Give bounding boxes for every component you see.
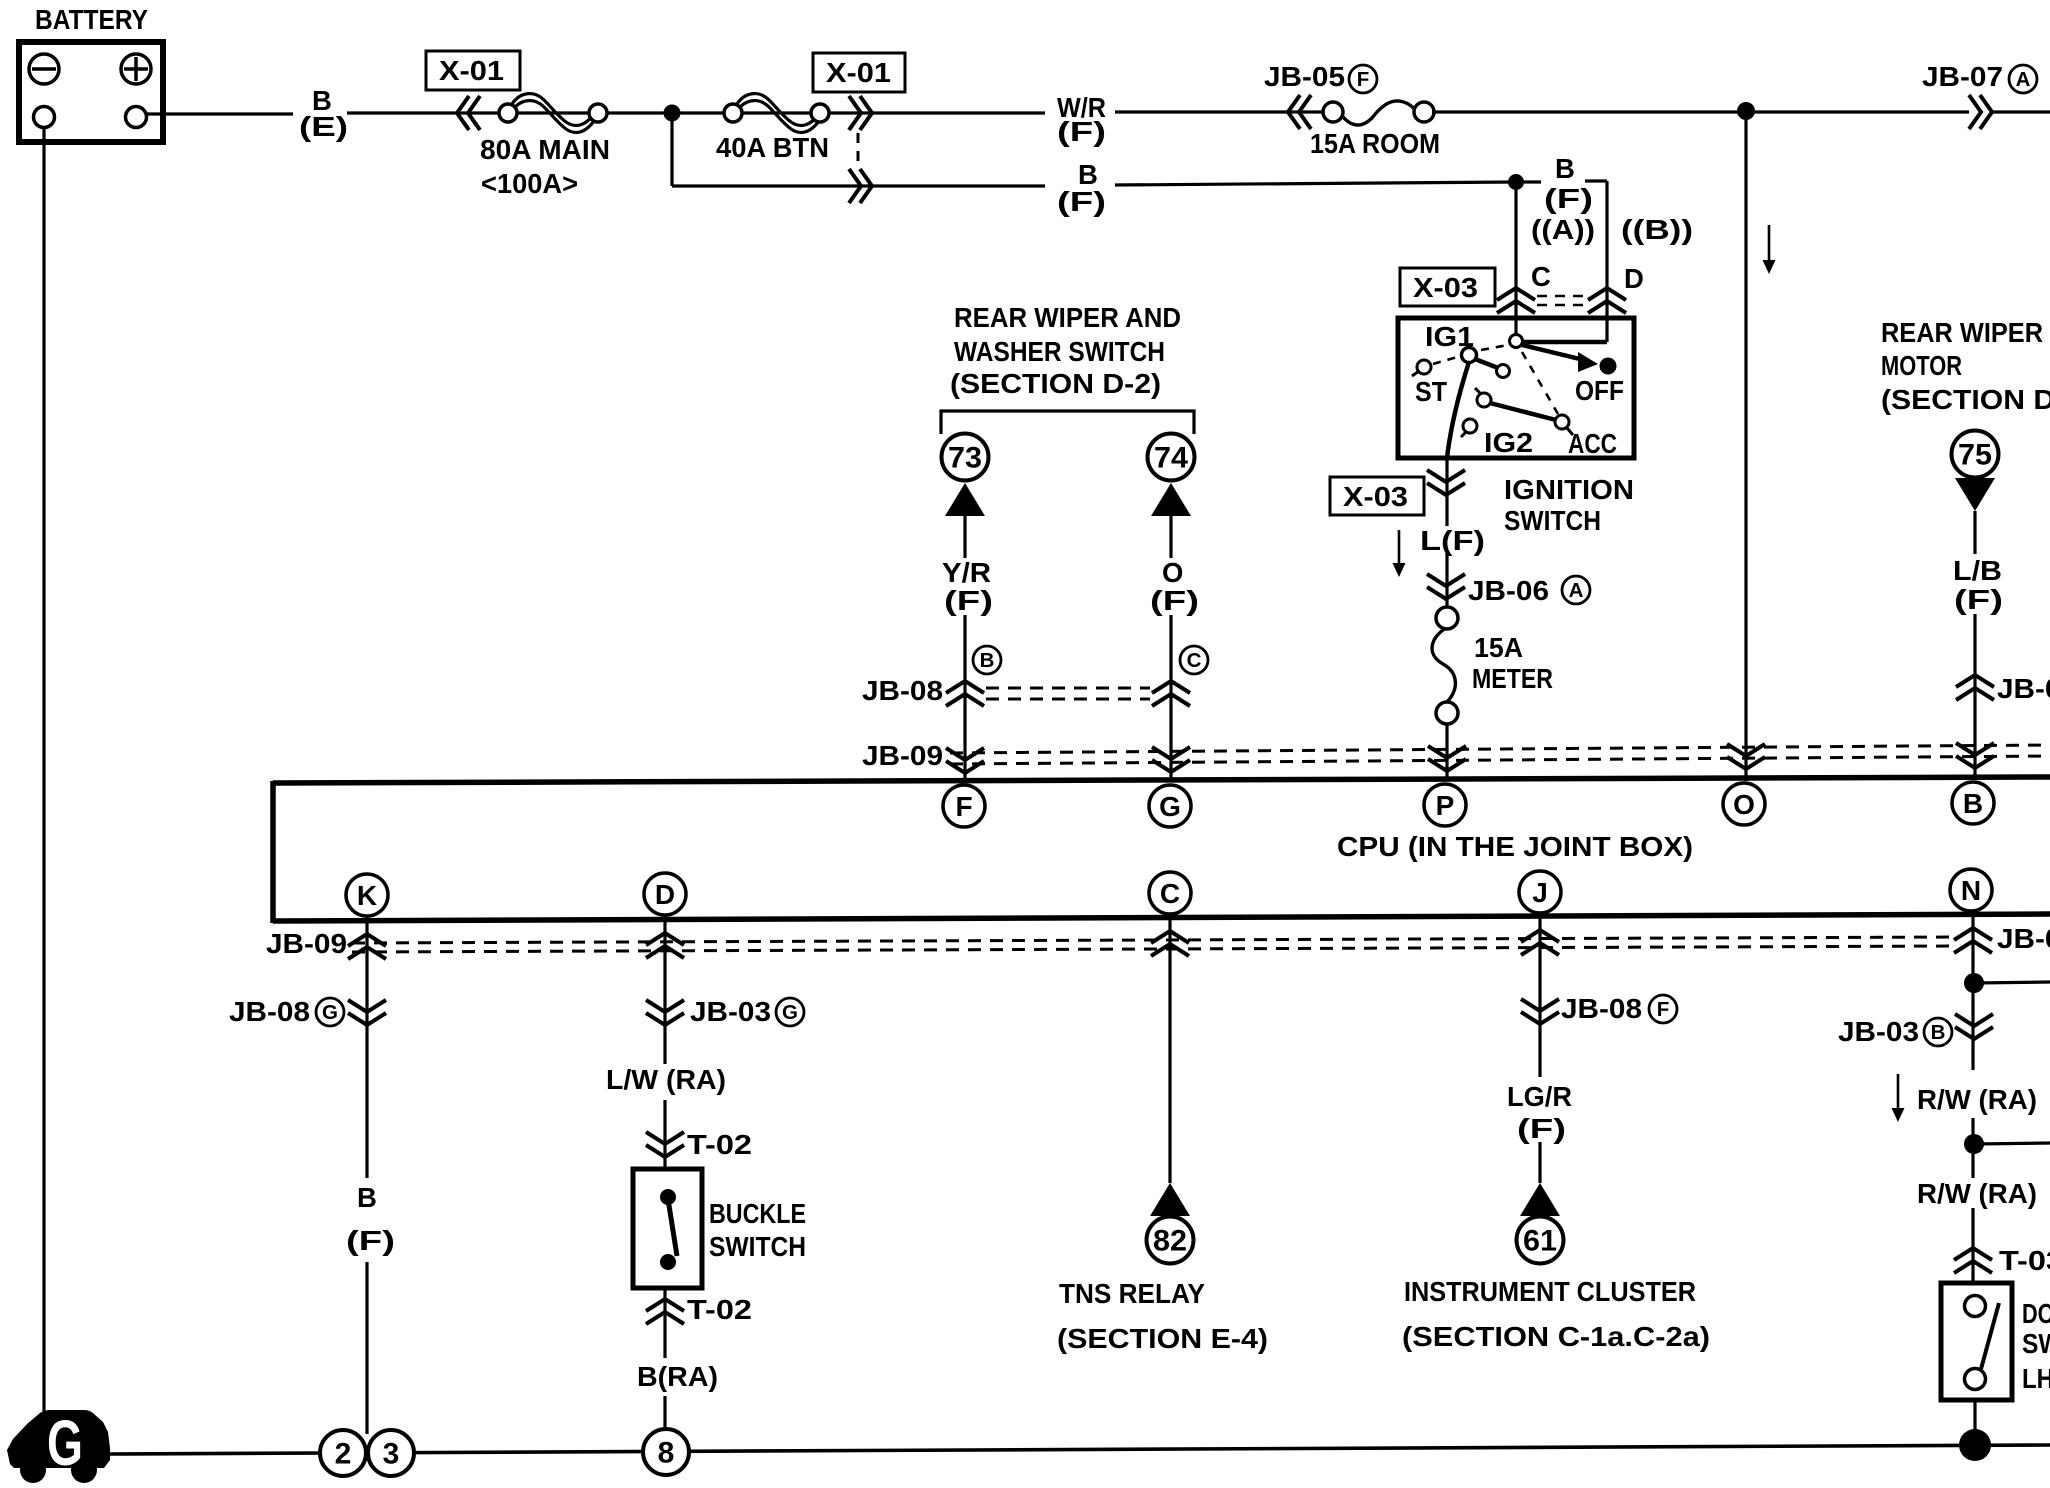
dashed IG1-C link bbox=[1481, 345, 1508, 350]
connector arrow 75 bbox=[1955, 478, 1995, 511]
wire buckle switch down bbox=[663, 1288, 666, 1358]
svg-text:<100A>: <100A> bbox=[481, 168, 578, 199]
svg-text:JB-08: JB-08 bbox=[1561, 993, 1642, 1024]
ground node 8 bbox=[643, 1429, 689, 1475]
JB-09 chevrons wire N bbox=[1954, 928, 1992, 953]
CPU pin N bbox=[1950, 869, 1992, 911]
wire METER fuse to CPU P bbox=[1445, 724, 1448, 781]
CPU pin P bbox=[1424, 784, 1466, 826]
connector chevrons JB-05 bbox=[1288, 95, 1311, 129]
svg-text:(E): (E) bbox=[299, 111, 348, 142]
wire 74 down bbox=[1169, 516, 1172, 558]
wire K to ground bus bbox=[365, 1262, 368, 1434]
wire battery+ to B(E) label bbox=[146, 112, 293, 115]
battery plus terminal symbol bbox=[121, 54, 151, 84]
svg-text:T-02: T-02 bbox=[687, 1129, 752, 1160]
svg-text:61: 61 bbox=[1523, 1225, 1557, 1258]
wire ignition output bbox=[1445, 458, 1448, 526]
80A fuse right terminal bbox=[589, 104, 607, 122]
battery minus terminal symbol bbox=[29, 54, 59, 84]
JB-09 chevrons wire G bbox=[1152, 747, 1190, 772]
svg-text:3: 3 bbox=[383, 1438, 400, 1471]
ignition terminal IG1 bbox=[1462, 348, 1477, 363]
svg-text:F: F bbox=[1657, 998, 1670, 1021]
wire W/R to 15A ROOM fuse bbox=[1115, 110, 1325, 113]
svg-text:G: G bbox=[782, 1001, 798, 1024]
svg-text:F: F bbox=[955, 791, 972, 822]
connector arrow 82 bbox=[1150, 1183, 1190, 1216]
wire tap 1 to page edge bbox=[1974, 982, 2050, 983]
connector chevrons X-01 on 80A link bbox=[457, 96, 480, 130]
svg-text:O: O bbox=[1733, 789, 1755, 820]
svg-text:JB-08: JB-08 bbox=[862, 675, 943, 706]
body ground symbol G (car) bbox=[7, 1407, 110, 1483]
wire B(E) through fuses to W/R label bbox=[347, 111, 1045, 114]
svg-text:CPU (IN THE JOINT BOX): CPU (IN THE JOINT BOX) bbox=[1337, 831, 1693, 862]
svg-text:T-02: T-02 bbox=[687, 1294, 752, 1325]
wire battery negative to body ground bbox=[42, 127, 45, 1412]
door switch blade bbox=[1981, 1303, 1999, 1369]
ignition center contact bbox=[1497, 365, 1510, 378]
svg-text:(F): (F) bbox=[1544, 183, 1593, 214]
svg-text:((A)): ((A)) bbox=[1531, 214, 1595, 245]
wire B(F) to ignition junction bbox=[1115, 182, 1516, 185]
connector chevrons T-03 bbox=[1954, 1248, 1992, 1273]
flow arrow L(F) bbox=[1393, 530, 1406, 577]
svg-text:K: K bbox=[357, 880, 377, 911]
JB-09 upper dashed bus bbox=[950, 745, 2050, 753]
wire junction down to B(F) branch bbox=[670, 113, 673, 186]
15A METER fuse top terminal bbox=[1436, 607, 1458, 629]
ACC contact tail bbox=[1567, 428, 1573, 435]
connector chevrons T-02 upper bbox=[646, 1132, 684, 1157]
svg-text:BATTERY: BATTERY bbox=[35, 4, 148, 35]
CPU pin J bbox=[1519, 871, 1561, 913]
ST contact tail bbox=[1412, 371, 1419, 376]
80A fuse left terminal bbox=[499, 104, 517, 122]
svg-text:L(F): L(F) bbox=[1420, 525, 1485, 556]
connector chevrons JB-07 bbox=[1969, 95, 1992, 129]
svg-text:(F): (F) bbox=[1057, 186, 1106, 217]
JB-09 chevrons wire C bbox=[1151, 931, 1189, 956]
IG2 contact tail bbox=[1475, 388, 1481, 394]
battery negative post bbox=[34, 107, 55, 128]
JB-09 chevrons wire O bbox=[1727, 744, 1765, 769]
CPU pin C bbox=[1149, 872, 1191, 914]
CPU pin O bbox=[1723, 783, 1765, 825]
svg-text:2: 2 bbox=[335, 1438, 352, 1471]
connector chevrons T-02 lower bbox=[646, 1299, 684, 1324]
JB-09 chevrons wire K bbox=[348, 934, 386, 959]
buckle switch box bbox=[633, 1169, 702, 1288]
wire C drop vertical bbox=[1514, 190, 1517, 335]
fusible link 80A MAIN bbox=[512, 94, 594, 126]
connector chevrons X-01 W/R side bbox=[849, 96, 872, 130]
connector chevrons JB-06 bbox=[1427, 574, 1465, 599]
wire K down bbox=[365, 916, 368, 1178]
svg-text:TNS RELAY: TNS RELAY bbox=[1059, 1278, 1205, 1309]
svg-text:82: 82 bbox=[1153, 1225, 1187, 1258]
wire B(RA) to ground bus bbox=[663, 1396, 666, 1431]
svg-text:Y/R: Y/R bbox=[942, 557, 991, 588]
ignition terminal IG2 bbox=[1477, 393, 1491, 407]
svg-text:R/W (RA): R/W (RA) bbox=[1917, 1084, 2037, 1115]
svg-text:D: D bbox=[655, 879, 675, 910]
svg-text:JB-07: JB-07 bbox=[1922, 61, 2003, 92]
svg-text:A: A bbox=[2016, 68, 2031, 91]
svg-text:(SECTION C-1a.C-2a): (SECTION C-1a.C-2a) bbox=[1402, 1321, 1710, 1352]
svg-text:(SECTION D-2): (SECTION D-2) bbox=[950, 368, 1161, 399]
lower contact tail bbox=[1461, 432, 1466, 437]
svg-text:REAR WIPER: REAR WIPER bbox=[1881, 317, 2043, 348]
wire 73 down bbox=[963, 516, 966, 558]
svg-text:(F): (F) bbox=[346, 1225, 395, 1256]
JB-09 chevrons wire P bbox=[1428, 746, 1466, 771]
connector 82 bbox=[1147, 1217, 1194, 1264]
15A ROOM fuse right terminal bbox=[1414, 102, 1434, 122]
svg-text:74: 74 bbox=[1154, 442, 1188, 475]
svg-text:(F): (F) bbox=[1150, 585, 1199, 616]
svg-text:P: P bbox=[1436, 790, 1455, 821]
connector 61 bbox=[1517, 1217, 1564, 1264]
svg-text:(F): (F) bbox=[1517, 1113, 1566, 1144]
svg-text:G: G bbox=[47, 1407, 83, 1479]
wire junction to B label bbox=[1524, 180, 1541, 183]
ignition switch box bbox=[1398, 318, 1634, 458]
battery positive post bbox=[126, 107, 147, 128]
svg-text:73: 73 bbox=[948, 442, 982, 475]
connector 73 bbox=[942, 434, 989, 481]
svg-text:C: C bbox=[1531, 261, 1551, 292]
JB-09 chevrons wire B bbox=[1956, 743, 1994, 768]
buckle switch upper contact bbox=[660, 1189, 676, 1205]
svg-text:DOOR: DOOR bbox=[2022, 1298, 2050, 1329]
svg-text:X-03: X-03 bbox=[1413, 272, 1478, 303]
svg-text:JB-09: JB-09 bbox=[266, 928, 347, 959]
flow arrow O wire bbox=[1763, 225, 1776, 274]
CPU (in the joint box) outline bbox=[273, 777, 2050, 783]
connector chevrons JB-03 B bbox=[1955, 1014, 1993, 1039]
ignition rotor line to OFF bbox=[1522, 345, 1588, 361]
CPU pin B bbox=[1952, 782, 1994, 824]
JB-09 lower dashed bus bbox=[352, 937, 1958, 943]
svg-text:R/W (RA): R/W (RA) bbox=[1917, 1178, 2037, 1209]
wire 15A ROOM to JB-07 bbox=[1432, 110, 1969, 113]
svg-text:JB-06: JB-06 bbox=[1468, 575, 1549, 606]
svg-text:BUCKLE: BUCKLE bbox=[709, 1198, 806, 1229]
svg-text:SWITCH: SWITCH bbox=[2022, 1328, 2050, 1359]
wire tap 2 to page edge bbox=[1974, 1143, 2050, 1144]
wire B(F) branch horizontal bbox=[672, 184, 1045, 187]
svg-text:B: B bbox=[1931, 1021, 1946, 1044]
wire B label to D drop bbox=[1585, 179, 1607, 182]
ignition lower contact bbox=[1463, 419, 1477, 433]
svg-text:J: J bbox=[1532, 877, 1548, 908]
svg-text:80A MAIN: 80A MAIN bbox=[480, 134, 610, 165]
wire junction to CPU O bbox=[1744, 111, 1747, 781]
CPU pin G bbox=[1149, 785, 1191, 827]
svg-text:JB-08: JB-08 bbox=[229, 996, 310, 1027]
svg-text:B: B bbox=[357, 1182, 377, 1213]
svg-text:ACC: ACC bbox=[1568, 428, 1617, 459]
svg-text:15A: 15A bbox=[1474, 632, 1523, 663]
svg-text:INSTRUMENT CLUSTER: INSTRUMENT CLUSTER bbox=[1404, 1276, 1696, 1307]
wire L/W to T-02 bbox=[663, 1100, 666, 1169]
wire Y/R to CPU F bbox=[963, 615, 966, 781]
svg-text:LG/R: LG/R bbox=[1507, 1081, 1572, 1112]
ignition switch internal contacts bbox=[1523, 340, 1607, 345]
svg-text:SWITCH: SWITCH bbox=[709, 1231, 806, 1262]
svg-text:OFF: OFF bbox=[1575, 375, 1624, 406]
connector 74 bbox=[1148, 434, 1195, 481]
svg-text:N: N bbox=[1961, 875, 1981, 906]
connector arrow 73 bbox=[945, 483, 985, 516]
wire N down bbox=[1971, 916, 1974, 1070]
svg-text:METER: METER bbox=[1472, 663, 1553, 694]
svg-text:REAR WIPER AND: REAR WIPER AND bbox=[954, 302, 1181, 333]
svg-text:MOTOR: MOTOR bbox=[1881, 350, 1962, 381]
connector chevrons JB-08 G bbox=[348, 1000, 386, 1025]
svg-text:40A BTN: 40A BTN bbox=[716, 132, 829, 163]
svg-text:B: B bbox=[1963, 788, 1983, 819]
bracket over connectors 73/74 bbox=[941, 411, 1194, 434]
15A ROOM fuse left terminal bbox=[1323, 102, 1343, 122]
junction node O-wire tap bbox=[1737, 102, 1755, 120]
svg-text:((B)): ((B)) bbox=[1621, 214, 1693, 245]
svg-text:(SECTION D-2): (SECTION D-2) bbox=[1881, 384, 2050, 415]
ignition terminal ST bbox=[1417, 360, 1431, 374]
svg-text:JB-05: JB-05 bbox=[1264, 61, 1345, 92]
connector chevrons X-01 B side bbox=[849, 169, 872, 203]
svg-text:D: D bbox=[1624, 263, 1644, 294]
svg-text:A: A bbox=[1569, 579, 1584, 602]
svg-text:B(RA): B(RA) bbox=[637, 1361, 718, 1392]
CPU pin D bbox=[644, 873, 686, 915]
OFF position dot bbox=[1600, 358, 1617, 375]
svg-text:B: B bbox=[980, 649, 995, 672]
svg-text:15A ROOM: 15A ROOM bbox=[1310, 128, 1440, 159]
svg-text:(F): (F) bbox=[944, 585, 993, 616]
svg-text:(F): (F) bbox=[1057, 116, 1106, 147]
ground bus junction dot bbox=[1959, 1429, 1991, 1461]
svg-text:F: F bbox=[1357, 68, 1370, 91]
svg-text:75: 75 bbox=[1958, 439, 1992, 472]
dashed ST-IG1 link bbox=[1433, 356, 1461, 364]
svg-text:X-03: X-03 bbox=[1343, 481, 1408, 512]
wire JB-07 to page edge bbox=[1992, 110, 2050, 113]
svg-text:C: C bbox=[1187, 649, 1202, 672]
junction node ignition feed bbox=[1508, 174, 1524, 190]
wire R/W mid bbox=[1971, 1118, 1974, 1178]
connector chevrons X-03 output bbox=[1427, 470, 1465, 495]
svg-text:(SECTION E-4): (SECTION E-4) bbox=[1057, 1323, 1268, 1354]
wire R/W to door switch bbox=[1971, 1208, 1974, 1283]
ignition wiper arm IG1 to output bbox=[1447, 362, 1469, 458]
svg-text:G: G bbox=[322, 1001, 338, 1024]
svg-text:JB-09: JB-09 bbox=[1997, 923, 2050, 954]
svg-text:C: C bbox=[1160, 878, 1180, 909]
svg-text:B: B bbox=[1555, 153, 1575, 184]
connector chevrons JB-08 F bbox=[1521, 999, 1559, 1024]
JB-09 chevrons wire F bbox=[946, 748, 984, 773]
connector arrow 61 bbox=[1520, 1183, 1560, 1216]
wire D down bbox=[663, 916, 666, 1064]
svg-text:JB-09: JB-09 bbox=[862, 740, 943, 771]
svg-text:JB-03: JB-03 bbox=[1838, 1016, 1919, 1047]
svg-text:IGNITION: IGNITION bbox=[1504, 474, 1634, 505]
junction node main feed bbox=[664, 105, 681, 122]
connector chevrons X-03 pin C bbox=[1497, 288, 1535, 313]
wire O to CPU G bbox=[1169, 615, 1172, 781]
buckle switch lower contact bbox=[660, 1254, 676, 1270]
wire 75 down bbox=[1973, 511, 1976, 554]
svg-text:LH: LH bbox=[2022, 1363, 2050, 1394]
svg-text:T-03: T-03 bbox=[1999, 1245, 2050, 1276]
connector arrow 74 bbox=[1151, 483, 1191, 516]
JB-08 dashed bus bbox=[986, 687, 1150, 690]
JB-09 chevrons wire J bbox=[1521, 930, 1559, 955]
wire D drop vertical bbox=[1605, 181, 1608, 342]
CPU pin K bbox=[346, 874, 388, 916]
ground bus wire bbox=[110, 1445, 2050, 1454]
ignition terminal ACC bbox=[1555, 415, 1569, 429]
fusible link 40A BTN bbox=[737, 94, 819, 126]
wire J down bbox=[1538, 916, 1541, 1077]
connector chevrons JB-07 motor wire bbox=[1956, 675, 1994, 700]
svg-text:8: 8 bbox=[658, 1437, 675, 1470]
svg-text:JB-07: JB-07 bbox=[1997, 673, 2050, 704]
buckle switch blade bbox=[668, 1199, 677, 1256]
fuse 15A ROOM bbox=[1343, 101, 1414, 125]
contact line IG2 to ACC bbox=[1490, 403, 1556, 420]
40A fuse left terminal bbox=[724, 104, 742, 122]
wire LG/R to cluster bbox=[1538, 1142, 1541, 1183]
CPU pin F bbox=[943, 785, 985, 827]
wire L/B to CPU B bbox=[1973, 614, 1976, 780]
wire C to TNS relay bbox=[1168, 916, 1171, 1183]
door switch LH box bbox=[1941, 1283, 2012, 1400]
svg-text:X-01: X-01 bbox=[439, 55, 504, 86]
junction node R/W tap 2 bbox=[1964, 1134, 1984, 1154]
dashed C-ACC link bbox=[1522, 352, 1558, 414]
wire door switch to ground bus bbox=[1973, 1400, 1976, 1445]
fuse 15A METER bbox=[1432, 628, 1455, 703]
connector chevrons JB-03 G bbox=[646, 1000, 684, 1025]
connector 75 bbox=[1952, 431, 1999, 478]
svg-text:WASHER SWITCH: WASHER SWITCH bbox=[954, 336, 1165, 367]
battery B1 box bbox=[19, 42, 163, 142]
door switch upper contact bbox=[1965, 1296, 1986, 1317]
flow arrow R/W bbox=[1892, 1074, 1905, 1122]
svg-text:L/B: L/B bbox=[1953, 555, 2002, 586]
junction node R/W tap 1 bbox=[1964, 973, 1984, 993]
contact line IG1 to center bbox=[1475, 359, 1498, 368]
connector chevrons JB-08 wire O bbox=[1152, 681, 1190, 706]
svg-text:SWITCH: SWITCH bbox=[1504, 505, 1601, 536]
svg-text:O: O bbox=[1162, 557, 1183, 588]
connector chevrons JB-08 wire Y/R bbox=[946, 681, 984, 706]
ground node 2 bbox=[320, 1430, 366, 1476]
JB-09 chevrons wire D bbox=[646, 933, 684, 958]
15A METER fuse bottom terminal bbox=[1436, 702, 1458, 724]
svg-text:X-01: X-01 bbox=[826, 57, 891, 88]
40A fuse right terminal bbox=[811, 104, 829, 122]
svg-text:G: G bbox=[1159, 791, 1181, 822]
X-03 dashed link bbox=[1537, 295, 1586, 298]
X-01 connector dashed link bbox=[857, 133, 860, 168]
svg-text:(F): (F) bbox=[1954, 584, 2003, 615]
ground node 3 bbox=[368, 1430, 414, 1476]
connector chevrons X-03 pin D bbox=[1588, 288, 1626, 313]
svg-text:JB-03: JB-03 bbox=[690, 996, 771, 1027]
svg-text:L/W (RA): L/W (RA) bbox=[606, 1064, 726, 1095]
svg-text:IG2: IG2 bbox=[1484, 427, 1533, 458]
ignition terminal C/B contact bbox=[1510, 335, 1523, 348]
door switch lower contact bbox=[1965, 1369, 1986, 1390]
wire L(F) to JB-06 bbox=[1445, 552, 1448, 609]
svg-text:ST: ST bbox=[1415, 376, 1447, 407]
